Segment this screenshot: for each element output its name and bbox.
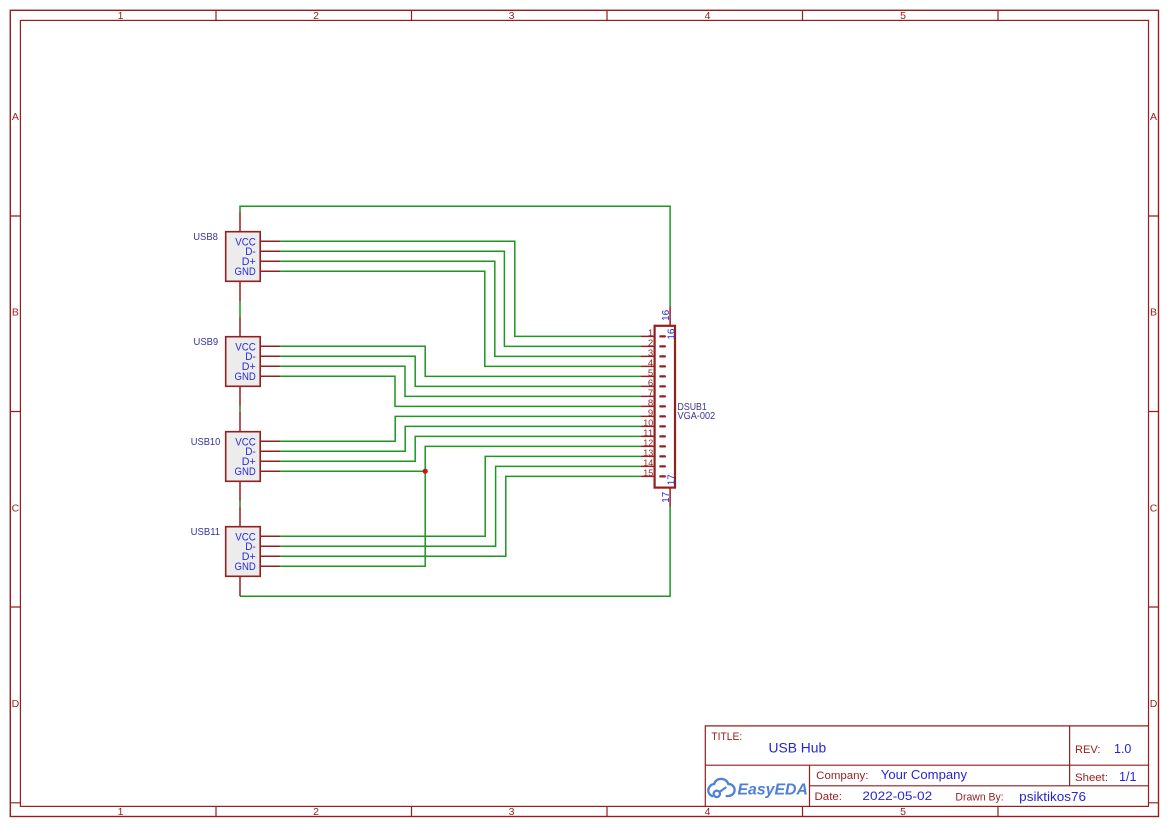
svg-text:Sheet:: Sheet:: [1075, 772, 1108, 784]
wire junction to USB11.GND: [280, 471, 425, 566]
wire USB8.D- to DSUB pin2: [280, 251, 641, 346]
svg-text:4: 4: [705, 806, 711, 818]
svg-text:USB Hub: USB Hub: [769, 741, 827, 757]
svg-text:17: 17: [667, 474, 678, 485]
DSUB1 pin numbers 1-15: [643, 328, 654, 479]
svg-text:USB9: USB9: [194, 337, 219, 348]
svg-text:A: A: [1150, 111, 1157, 123]
wire USB8.GND to DSUB pin4: [280, 271, 641, 366]
SCHEMATIC: [191, 206, 716, 596]
wire USB8 bottom to USB9 top: [239, 301, 241, 316]
frame ticks left: [10, 216, 20, 803]
wire USB9.D- to DSUB pin6: [280, 356, 641, 386]
svg-text:1: 1: [118, 10, 124, 22]
svg-text:EasyEDA: EasyEDA: [738, 781, 808, 798]
wire net loop bottom (USB11 pin bottom to DSUB pin17): [240, 507, 670, 596]
USB9 pin bottom: [239, 386, 241, 406]
title block divider h1: [705, 764, 1148, 766]
USB10 body: [226, 432, 261, 482]
wire USB9.GND to DSUB pin8: [280, 376, 641, 406]
svg-text:D: D: [1150, 698, 1158, 710]
svg-text:4: 4: [705, 10, 711, 22]
title block divider v logo: [809, 765, 811, 806]
svg-text:1: 1: [118, 806, 124, 818]
svg-text:2: 2: [313, 806, 319, 818]
USB9 pins right: [260, 346, 280, 376]
connector USB10: [191, 412, 280, 502]
svg-text:USB11: USB11: [191, 527, 221, 538]
logo node line: [720, 788, 726, 792]
connector DSUB1: [641, 306, 715, 507]
USB8 pin top: [239, 212, 241, 232]
USB10 pin bottom: [239, 481, 241, 501]
USB10 pins right: [260, 441, 280, 471]
logo cloud: [708, 779, 734, 796]
svg-text:2: 2: [313, 10, 319, 22]
title block outline: [705, 726, 1148, 807]
wire USB10.VCC to DSUB pin9: [280, 416, 641, 441]
svg-text:3: 3: [509, 806, 515, 818]
wire USB10.D+ to DSUB pin11: [280, 436, 641, 461]
USB10 pin names: [235, 436, 257, 478]
svg-text:Drawn By:: Drawn By:: [955, 792, 1003, 804]
svg-text:B: B: [12, 307, 19, 319]
svg-text:USB10: USB10: [191, 437, 221, 448]
svg-text:A: A: [12, 111, 19, 123]
svg-text:5: 5: [900, 806, 906, 818]
svg-text:GND: GND: [235, 266, 256, 278]
svg-text:GND: GND: [235, 561, 256, 573]
svg-text:15: 15: [643, 468, 653, 479]
wire USB11.VCC to DSUB pin13: [280, 456, 641, 536]
DSUB1 pin16 top: [669, 306, 671, 325]
USB11 pin bottom: [239, 576, 241, 596]
svg-text:Company:: Company:: [816, 770, 868, 782]
junction dot: [423, 469, 428, 474]
wire USB11.D+ to DSUB pin15: [280, 476, 641, 556]
USB9 pin top: [239, 317, 241, 337]
wire USB9.VCC to DSUB pin5: [280, 346, 641, 376]
wire USB10 bottom to USB11 top: [239, 501, 241, 506]
USB11 pin names: [235, 531, 257, 573]
USB10 pin top: [239, 412, 241, 432]
DSUB1 body: [655, 326, 675, 488]
EasyEDA logo: [708, 779, 808, 799]
USB9 pin names: [235, 341, 257, 383]
svg-text:C: C: [12, 502, 20, 514]
svg-text:Date:: Date:: [815, 791, 843, 803]
DSUB1 pin17 bottom: [669, 488, 671, 507]
title block divider v rev: [1069, 726, 1071, 786]
USB9 body: [226, 337, 261, 387]
svg-text:Your Company: Your Company: [881, 768, 968, 782]
svg-text:5: 5: [900, 10, 906, 22]
USB11 pin top: [239, 507, 241, 527]
wire junction to DSUB pin12: [425, 446, 641, 471]
wire USB9 bottom to USB10 top: [239, 406, 241, 411]
USB8 pins right: [260, 241, 280, 271]
svg-text:16: 16: [661, 309, 672, 320]
svg-text:1.0: 1.0: [1114, 742, 1131, 756]
USB11 pins right: [260, 536, 280, 566]
svg-text:16: 16: [667, 328, 678, 339]
connector USB11: [191, 507, 280, 597]
wire USB8.D+ to DSUB pin3: [280, 261, 641, 356]
frame ticks right: [1149, 216, 1159, 803]
svg-text:VGA-002: VGA-002: [678, 411, 716, 422]
svg-text:TITLE:: TITLE:: [711, 731, 742, 743]
connector USB9: [194, 317, 281, 407]
svg-text:GND: GND: [235, 466, 256, 478]
USB8 pin bottom: [239, 281, 241, 301]
DSUB1 pins 1-15: [641, 336, 655, 476]
wire USB10.GND to junction: [280, 470, 425, 472]
wire USB8.VCC to DSUB pin1: [280, 241, 641, 336]
svg-text:psiktikos76: psiktikos76: [1019, 789, 1086, 804]
USB8 pin names: [235, 236, 257, 278]
svg-text:2022-05-02: 2022-05-02: [862, 789, 932, 803]
svg-text:GND: GND: [235, 371, 256, 383]
DSUB1 inner pin stubs: [660, 336, 665, 476]
frame ticks top: [216, 10, 998, 20]
USB11 body: [226, 527, 261, 577]
svg-text:USB8: USB8: [193, 232, 218, 243]
wire net loop top (USB8 pin top to DSUB pin16): [240, 206, 670, 306]
USB8 body: [226, 232, 261, 282]
svg-text:1/1: 1/1: [1119, 770, 1137, 784]
title block divider h2: [810, 785, 1149, 787]
TITLE BLOCK: [705, 726, 1148, 807]
frame ticks bottom: [216, 806, 998, 816]
wire USB10.D- to DSUB pin10: [280, 426, 641, 451]
logo node circle: [714, 791, 720, 797]
svg-text:D: D: [12, 698, 20, 710]
wire USB11.D- to DSUB pin14: [280, 466, 641, 546]
svg-text:3: 3: [509, 10, 515, 22]
wire USB9.D+ to DSUB pin7: [280, 366, 641, 396]
svg-text:C: C: [1150, 502, 1158, 514]
svg-text:17: 17: [661, 491, 672, 502]
connector USB8: [193, 212, 280, 302]
svg-text:B: B: [1150, 307, 1157, 319]
svg-text:REV:: REV:: [1075, 744, 1100, 756]
